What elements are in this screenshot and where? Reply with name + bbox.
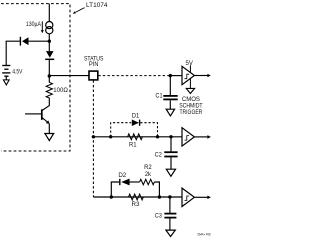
junction dot row1: [169, 74, 172, 77]
svg-text:C3: C3: [155, 213, 162, 220]
ground (C2): [166, 169, 175, 176]
output wire U3 with arrow: [194, 196, 207, 198]
svg-text:C1: C1: [156, 93, 163, 100]
wire battery to ground: [5, 76, 7, 80]
junction dot row2 left: [92, 135, 95, 138]
op-amp U3 schmitt inverter: [182, 188, 194, 206]
row 3 wire: [93, 196, 182, 198]
diode D4 (clamp to battery): [22, 37, 29, 45]
resistor 100 ohm: [46, 82, 52, 98]
transistor Q1 base wire: [25, 113, 41, 115]
battery 4.5V: [2, 65, 10, 67]
current source I1: [46, 22, 53, 29]
wire row1 to inverter: [170, 75, 182, 77]
node A junction dot: [48, 40, 51, 43]
op-amp U1 schmitt inverter: [182, 66, 194, 84]
resistor R3: [129, 194, 144, 200]
diode D1: [132, 120, 139, 127]
transistor Q1 base bar: [41, 109, 43, 120]
svg-text:TRIGGER: TRIGGER: [180, 109, 203, 116]
ground (C3): [166, 230, 175, 236]
op-amp U2 schmitt inverter: [182, 128, 194, 146]
wire top supply to current source: [48, 4, 50, 22]
capacitor C1: [169, 76, 171, 95]
output wire U1 with arrow: [194, 75, 207, 77]
wire resistor to transistor collector: [42, 98, 49, 111]
output wire U2 with arrow: [194, 136, 207, 138]
ground (emitter): [45, 134, 54, 141]
ground (U1): [189, 78, 191, 88]
LT1074 label leader arrow: [75, 8, 85, 13]
ground (C1): [166, 109, 174, 116]
wire emitter to ground: [48, 124, 50, 134]
wire node A to diode D4: [29, 40, 50, 42]
current arrow 130uA: [41, 21, 43, 30]
wire node B to STATUS pin box: [49, 75, 89, 77]
junction dots row3: [110, 195, 113, 198]
resistor R1: [128, 134, 143, 140]
IC boundary dashed box LT1074: [1, 4, 70, 151]
svg-text:2k: 2k: [145, 171, 152, 178]
wire current source to node A: [48, 34, 50, 41]
bypass branch D2 R2: [111, 182, 119, 197]
dashed net: status pin to row 1: [98, 75, 170, 77]
resistor R2: [140, 179, 155, 184]
wire R2 down to row3: [154, 182, 159, 197]
wire diode to battery corner: [6, 41, 20, 65]
5V supply stub: [189, 65, 191, 72]
svg-text:5V: 5V: [186, 60, 194, 67]
svg-text:0644 • F08: 0644 • F08: [198, 232, 211, 236]
svg-text:PIN: PIN: [89, 61, 98, 68]
svg-text:D2: D2: [118, 172, 126, 179]
wire diode to node B: [48, 60, 50, 83]
svg-text:D1: D1: [132, 113, 140, 120]
svg-text:C2: C2: [155, 151, 162, 158]
wire D2 to R2: [130, 181, 140, 183]
svg-text:R3: R3: [132, 201, 140, 208]
svg-text:130µA: 130µA: [26, 21, 42, 28]
svg-text:100Ω: 100Ω: [53, 87, 68, 94]
ground (battery): [3, 80, 9, 85]
svg-text:R1: R1: [129, 141, 137, 148]
transistor Q1 emitter with arrow: [42, 118, 47, 123]
row 2 wire: [93, 136, 182, 138]
dashed net: status pin down to rows 2 and 3: [92, 80, 94, 197]
dashed bypass loop for D1: [111, 123, 132, 137]
svg-text:4.5V: 4.5V: [12, 68, 23, 75]
node B junction dot: [48, 74, 51, 77]
diode D2: [119, 179, 121, 185]
junction dots row2: [109, 135, 112, 138]
capacitor C3: [169, 197, 171, 213]
STATUS PIN square: [89, 71, 98, 80]
svg-text:LT1074: LT1074: [86, 2, 108, 9]
diode D5 (series, pointing down): [48, 41, 50, 51]
capacitor C2: [170, 137, 172, 152]
